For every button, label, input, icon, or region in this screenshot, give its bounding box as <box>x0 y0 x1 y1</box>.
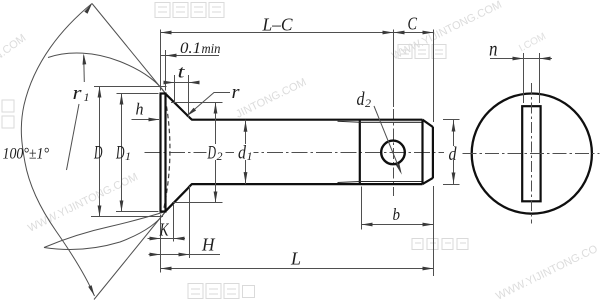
r1 leader arrowhead <box>83 54 87 65</box>
main centerline <box>145 152 445 154</box>
svg-text:1: 1 <box>84 90 90 104</box>
dim line D1 <box>121 94 123 212</box>
svg-text:2: 2 <box>365 96 371 110</box>
leader d2 <box>374 106 401 172</box>
head cone bottom + fillet + shank bottom edge <box>166 184 423 211</box>
svg-text:JINTONG.COM: JINTONG.COM <box>234 76 308 120</box>
slot start line <box>359 120 361 184</box>
svg-text:n: n <box>489 37 498 61</box>
svg-text:WWW.YIJINTONG.CO: WWW.YIJINTONG.CO <box>494 243 600 303</box>
ext H right <box>189 186 191 258</box>
hidden sphere arc dashed <box>164 99 170 210</box>
dim line D2 <box>215 103 217 203</box>
dim line K <box>148 238 186 240</box>
svg-text:0.1: 0.1 <box>180 40 201 57</box>
end view circle <box>472 94 592 214</box>
svg-text:r: r <box>73 83 83 104</box>
chamfer top corner <box>423 120 433 127</box>
ext end upper <box>433 30 435 123</box>
dim line L-C <box>161 32 394 34</box>
svg-text:100°±1°: 100°±1° <box>3 146 50 163</box>
slot rectangle <box>522 106 540 201</box>
ext b left <box>361 187 363 230</box>
head bottom rim <box>160 210 167 212</box>
r1 arc top <box>48 53 166 94</box>
dim line d1 <box>245 120 247 184</box>
ext d lower <box>443 184 460 186</box>
end view vertical centerline <box>531 83 533 224</box>
head cone top + fillet + shank top edge <box>166 94 423 120</box>
ext face lower <box>160 215 162 273</box>
ext face upper <box>160 30 162 91</box>
r1 leader lower <box>67 104 80 170</box>
svg-text:D: D <box>93 144 103 164</box>
ext D1 upper <box>117 93 159 95</box>
end view horizontal centerline <box>463 153 600 155</box>
hole d2 <box>381 141 405 165</box>
hole centerline <box>393 109 395 196</box>
chamfer line <box>421 120 423 184</box>
dim line t <box>164 82 200 84</box>
svg-text:D: D <box>207 144 217 164</box>
dim line 0.1min <box>161 55 220 57</box>
angle leg top <box>92 4 166 94</box>
head top rim <box>160 92 167 94</box>
end face <box>432 127 434 178</box>
dim line n <box>490 58 552 60</box>
dim line H <box>149 254 221 256</box>
ext D upper <box>94 86 167 88</box>
head rim edge D1 <box>164 94 166 212</box>
ext t left <box>174 75 176 103</box>
ext K right <box>173 204 175 242</box>
svg-text:C: C <box>408 14 418 34</box>
arrowhead top of angle arc <box>84 4 92 14</box>
ext D1 lower <box>116 211 159 213</box>
slot edge top <box>360 121 423 123</box>
svg-text:min: min <box>202 41 221 56</box>
svg-text:N.COM: N.COM <box>0 32 28 63</box>
svg-text:K: K <box>159 220 170 240</box>
dim line d <box>453 120 455 185</box>
chamfer bottom corner <box>423 178 433 184</box>
svg-text:L–C: L–C <box>262 15 294 35</box>
ext n right <box>539 53 541 103</box>
slot runout top <box>338 121 360 122</box>
svg-text:b: b <box>393 205 401 224</box>
svg-text:I.COM: I.COM <box>517 31 548 54</box>
dim line L <box>161 268 434 270</box>
svg-text:L: L <box>290 249 301 269</box>
ext n left <box>523 53 525 103</box>
svg-text:2: 2 <box>217 149 223 163</box>
arrowhead r leader <box>187 108 197 117</box>
100-deg dimension arc <box>21 4 94 297</box>
angle leg bottom <box>94 212 166 300</box>
arrowhead d2 <box>396 164 402 175</box>
r1 leader upper <box>83 56 86 83</box>
leader r <box>187 93 231 117</box>
svg-text:h: h <box>136 100 144 119</box>
dim line D <box>99 87 101 217</box>
ext line2 upper <box>165 50 167 91</box>
hole centerline ext upper <box>393 30 395 108</box>
dim line h <box>132 119 160 121</box>
svg-text:1: 1 <box>125 149 131 163</box>
ext end lower <box>433 186 435 276</box>
svg-text:1: 1 <box>247 149 253 163</box>
ext t right <box>188 75 190 118</box>
arrowhead bottom of angle arc <box>88 285 94 296</box>
svg-text:d: d <box>238 144 247 164</box>
svg-text:D: D <box>115 144 125 164</box>
ext d upper <box>443 119 460 121</box>
dim line C <box>394 32 434 34</box>
r1 arc bottom A <box>44 212 166 248</box>
svg-text:d: d <box>357 90 366 110</box>
r1 arc bottom B <box>44 212 166 250</box>
head face <box>159 94 161 212</box>
dim line b <box>362 224 434 226</box>
svg-text:t: t <box>178 62 186 82</box>
ext D2 upper <box>171 102 223 104</box>
slot runout bottom <box>338 182 360 183</box>
svg-text:d: d <box>449 145 458 165</box>
ext D lower <box>91 216 163 218</box>
slot edge bottom <box>360 181 423 183</box>
svg-text:r: r <box>232 82 241 103</box>
svg-text:H: H <box>201 235 215 255</box>
ext D2 lower <box>172 202 223 204</box>
